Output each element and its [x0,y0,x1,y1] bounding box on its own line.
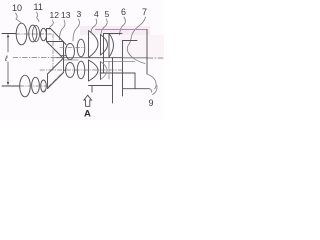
vertical fold axis (dash-dot) [52,34,54,70]
lens 3 oval [77,39,85,57]
lower lens 11' [32,77,40,93]
lower prism entrance face [47,74,49,89]
lower lens 4' convex arc [89,60,99,81]
inner block 7 left edge [122,41,124,97]
svg-text:6: 6 [121,7,126,17]
block right edge [146,30,148,75]
label 13 [61,10,71,20]
svg-text:4: 4 [94,9,99,19]
svg-text:10: 10 [12,3,22,13]
exit curve to eye [147,74,156,89]
lens 4 convex arc [89,31,99,58]
inner vertical divider [112,58,114,104]
leader for 9 [153,86,158,95]
label 7 [142,7,147,17]
lower axis through lenses [20,85,48,87]
lens 11 [29,25,37,42]
svg-text:ℓ: ℓ [4,54,8,63]
prism 1 right face [63,42,65,58]
label 4 [94,9,99,19]
svg-text:13: 13 [61,10,71,20]
leader for 13 [60,20,66,40]
lower lens 10' [20,75,31,97]
label 12 [50,10,60,20]
lower block corner drop [91,86,93,93]
lens 11 rear element [33,26,40,42]
lower axis (dash-dot) [40,69,122,71]
label 6 [121,7,126,17]
dimension vertical line [7,36,9,52]
lens 10 [16,23,27,45]
svg-text:A: A [84,109,91,120]
axis segment after prism (dash) [60,47,84,49]
block 6 outline [104,33,123,35]
block 6 top edge (pink tinted) [96,29,148,31]
lens 5 flat face [100,35,102,56]
prism 2 diagonal [47,42,63,58]
lower lens 12' [41,80,47,92]
lower prism right face [63,58,65,73]
lower prism upper diagonal [48,58,64,74]
inner block 7 top [123,40,138,42]
lower lens 4' flat face [88,60,90,81]
svg-text:12: 12 [50,10,60,20]
label 5 [105,9,110,19]
middle axis continuation [56,57,84,59]
leader for 4 [91,19,97,32]
lower lens 3' [77,61,85,79]
lower lens 13' [66,63,75,78]
prism 1 top face [47,28,51,30]
dimension top line [2,33,16,35]
lower right block bottom [123,88,150,90]
svg-text:11: 11 [34,2,43,12]
lower lens 5' flat face [100,62,102,80]
inner block 7 mid line [104,61,136,63]
middle axis dark segment [84,57,122,59]
leader for 5 [101,19,107,34]
arrowhead down [7,82,9,85]
lens 13 [66,44,75,60]
leader for 3 [73,19,79,41]
label 3 [77,9,82,19]
prism 1 entrance face [46,29,48,42]
prism 2 bottom edge [61,55,67,57]
lower block 6' entrance face [108,62,110,80]
lower right block right vertical [134,73,136,89]
lens 4 flat face [88,32,90,57]
leader for 10 [16,13,22,23]
leader for 12 [49,20,53,30]
lower lens 5' convex arc [101,62,108,80]
lower prism hypotenuse [48,73,64,89]
arrow A outline [84,95,92,106]
leader for 7 (long sweep into block) [127,17,145,64]
holder line under lens 13 [64,59,79,61]
lower fold diagonal dash-dot [44,68,68,92]
lower-left axis solid lead [2,85,20,87]
middle axis right segment [147,57,163,59]
middle axis (dash-dot) [13,57,70,59]
label 10 [12,3,22,13]
svg-text:5: 5 [105,9,110,19]
optical axis top row (dash-dot) [16,33,53,35]
arrowhead up [7,34,9,37]
svg-text:9: 9 [149,98,154,108]
lens 12 [41,28,47,40]
lower right block bottom curl [150,89,152,93]
label 11 [34,2,43,12]
leader for 11 [37,12,40,22]
lower block bottom edge [89,85,113,87]
leader for 6 [120,17,126,35]
label 9 [149,98,154,108]
label A [84,109,91,120]
lens 5 convex arc [101,35,108,56]
prism 1 bottom face [47,41,64,43]
block 6 entrance curved face [108,34,110,58]
svg-text:3: 3 [77,9,82,19]
svg-text:7: 7 [142,7,147,17]
label l (script ell) [4,54,8,63]
prism 1 hypotenuse [51,29,67,45]
